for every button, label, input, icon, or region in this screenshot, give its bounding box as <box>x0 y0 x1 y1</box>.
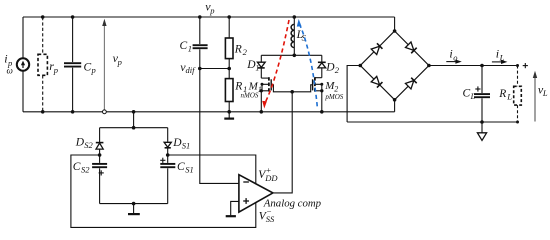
svg-text:R: R <box>234 80 242 92</box>
label v_L <box>538 82 548 98</box>
current path i_S positive (red dashed) <box>262 20 289 109</box>
diode D_S1 <box>164 128 171 155</box>
label R_L <box>498 88 512 102</box>
capacitor C_L <box>474 66 490 123</box>
node v_dif wire <box>200 68 229 70</box>
label L_S <box>296 29 307 43</box>
diode D_S2 <box>96 128 104 155</box>
svg-text:−: − <box>266 206 272 216</box>
wire bridge right vertex to load (i_o net) <box>429 65 518 67</box>
svg-text:R: R <box>498 88 506 100</box>
diode D2 <box>318 55 326 77</box>
label D_1 <box>246 59 259 73</box>
svg-text:S2: S2 <box>84 140 93 150</box>
bridge diode top-right <box>405 42 416 53</box>
v_L measurement arrow <box>533 71 537 122</box>
wire + input to ground <box>231 201 239 215</box>
bridge rectifier diamond <box>360 31 429 100</box>
svg-text:2: 2 <box>243 47 248 57</box>
label D_S2 <box>75 136 94 150</box>
resistor R_L (dashed) <box>514 66 522 123</box>
resistor R1 <box>225 69 233 112</box>
svg-text:2: 2 <box>335 65 340 75</box>
current path i_S negative (blue dashed) <box>297 19 318 108</box>
svg-text:L: L <box>499 52 505 62</box>
wire C_S2 node to V_SS loop <box>71 155 256 227</box>
wire DC- bottom rail <box>347 121 517 123</box>
wire bottom rail to sample-hold block <box>133 112 135 128</box>
svg-text:C: C <box>177 161 185 173</box>
svg-text:ω: ω <box>7 66 13 76</box>
wire left source branch <box>22 17 24 112</box>
wire C_S1 node to V_DD <box>168 155 256 184</box>
label M_1 <box>248 80 262 94</box>
label v_p (top center) <box>205 0 214 16</box>
wire comparator output <box>273 92 292 193</box>
label v_dif <box>180 60 196 75</box>
diode D1 <box>257 55 265 78</box>
svg-text:+: + <box>266 165 272 175</box>
label C_1 <box>180 40 192 53</box>
svg-text:p: p <box>53 65 58 75</box>
svg-text:S1: S1 <box>182 140 191 150</box>
label + (C_L polarity) <box>475 86 480 91</box>
svg-text:o: o <box>453 52 457 62</box>
capacitor C_S1 <box>160 155 175 204</box>
transistor M1 (nMOS) <box>260 77 272 112</box>
label D_2 <box>325 61 339 75</box>
svg-text:nMOS: nMOS <box>241 92 259 100</box>
wire v_dif to comparator minus input <box>200 69 239 184</box>
svg-text:pMOS: pMOS <box>324 93 343 101</box>
svg-text:C: C <box>463 88 471 100</box>
label D_S1 <box>172 137 190 151</box>
capacitor C1 <box>193 17 208 69</box>
label v_p (left) <box>113 51 122 67</box>
wire bridge left vertex to DC- rail <box>347 66 360 123</box>
pin - (inverting input) <box>243 181 249 183</box>
svg-text:R: R <box>234 43 242 55</box>
wire sample block top <box>100 127 168 129</box>
svg-text:dif: dif <box>186 65 197 75</box>
wire top rail (v_p net) <box>23 16 395 18</box>
transistor M2 (pMOS) <box>313 77 324 112</box>
resistor r_p (dashed) <box>38 17 47 112</box>
svg-text:S2: S2 <box>81 165 90 175</box>
label C_S1 <box>177 161 194 175</box>
label + (C_S2 polarity) <box>99 170 104 175</box>
label r_p <box>49 59 58 75</box>
bridge diode top-left <box>371 43 382 54</box>
capacitor C_S2 <box>92 155 107 204</box>
svg-text:p: p <box>91 65 96 75</box>
ground (below R1) <box>224 112 234 119</box>
wire bottom rail <box>23 111 395 113</box>
wire sample block bottom <box>100 203 168 205</box>
svg-text:L: L <box>506 91 512 101</box>
svg-text:S1: S1 <box>185 165 194 175</box>
label i_o <box>449 47 457 63</box>
ground (load, open triangle) <box>477 122 486 140</box>
wire bridge bottom to rail <box>394 100 396 112</box>
svg-text:C: C <box>180 40 188 52</box>
label C_S2 <box>73 161 90 175</box>
pin + (non-inverting input) <box>243 198 249 204</box>
label + (v_L polarity) <box>523 63 528 68</box>
op-amp U1 analog comparator <box>239 175 273 212</box>
bridge diode bottom-left <box>371 76 382 87</box>
ground (comparator + input) <box>226 215 236 217</box>
svg-text:p: p <box>117 57 122 67</box>
svg-text:C: C <box>73 161 81 173</box>
inductor L_S <box>291 17 294 55</box>
ground (sample block) <box>128 204 140 215</box>
svg-text:L: L <box>542 88 548 98</box>
label i_p <box>4 52 12 69</box>
label V_DD+ <box>258 165 278 183</box>
label i_L <box>496 47 505 63</box>
label + (C_S1 polarity) <box>160 158 165 163</box>
label C_p <box>84 61 96 75</box>
svg-text:L: L <box>470 92 476 101</box>
svg-text:p: p <box>209 6 214 16</box>
label C_L <box>463 88 476 102</box>
wire switch top <box>261 54 322 56</box>
v_p measurement arrow <box>102 19 106 114</box>
label V_SS- <box>259 206 275 224</box>
bridge diode bottom-right <box>405 78 416 89</box>
wire M1/M2 gates to comparator output <box>271 85 312 92</box>
svg-text:1: 1 <box>188 44 192 54</box>
label R_1 <box>234 80 247 94</box>
capacitor C_p <box>64 17 81 112</box>
label M_2 <box>324 80 338 94</box>
current arrow i_L <box>492 60 508 64</box>
current arrow i_o <box>446 60 462 64</box>
wire top rail to bridge <box>394 17 396 31</box>
label R_2 <box>234 43 248 57</box>
svg-text:C: C <box>84 61 92 73</box>
resistor R2 <box>225 17 233 69</box>
current source i_p <box>17 58 29 70</box>
svg-text:1: 1 <box>255 63 259 72</box>
